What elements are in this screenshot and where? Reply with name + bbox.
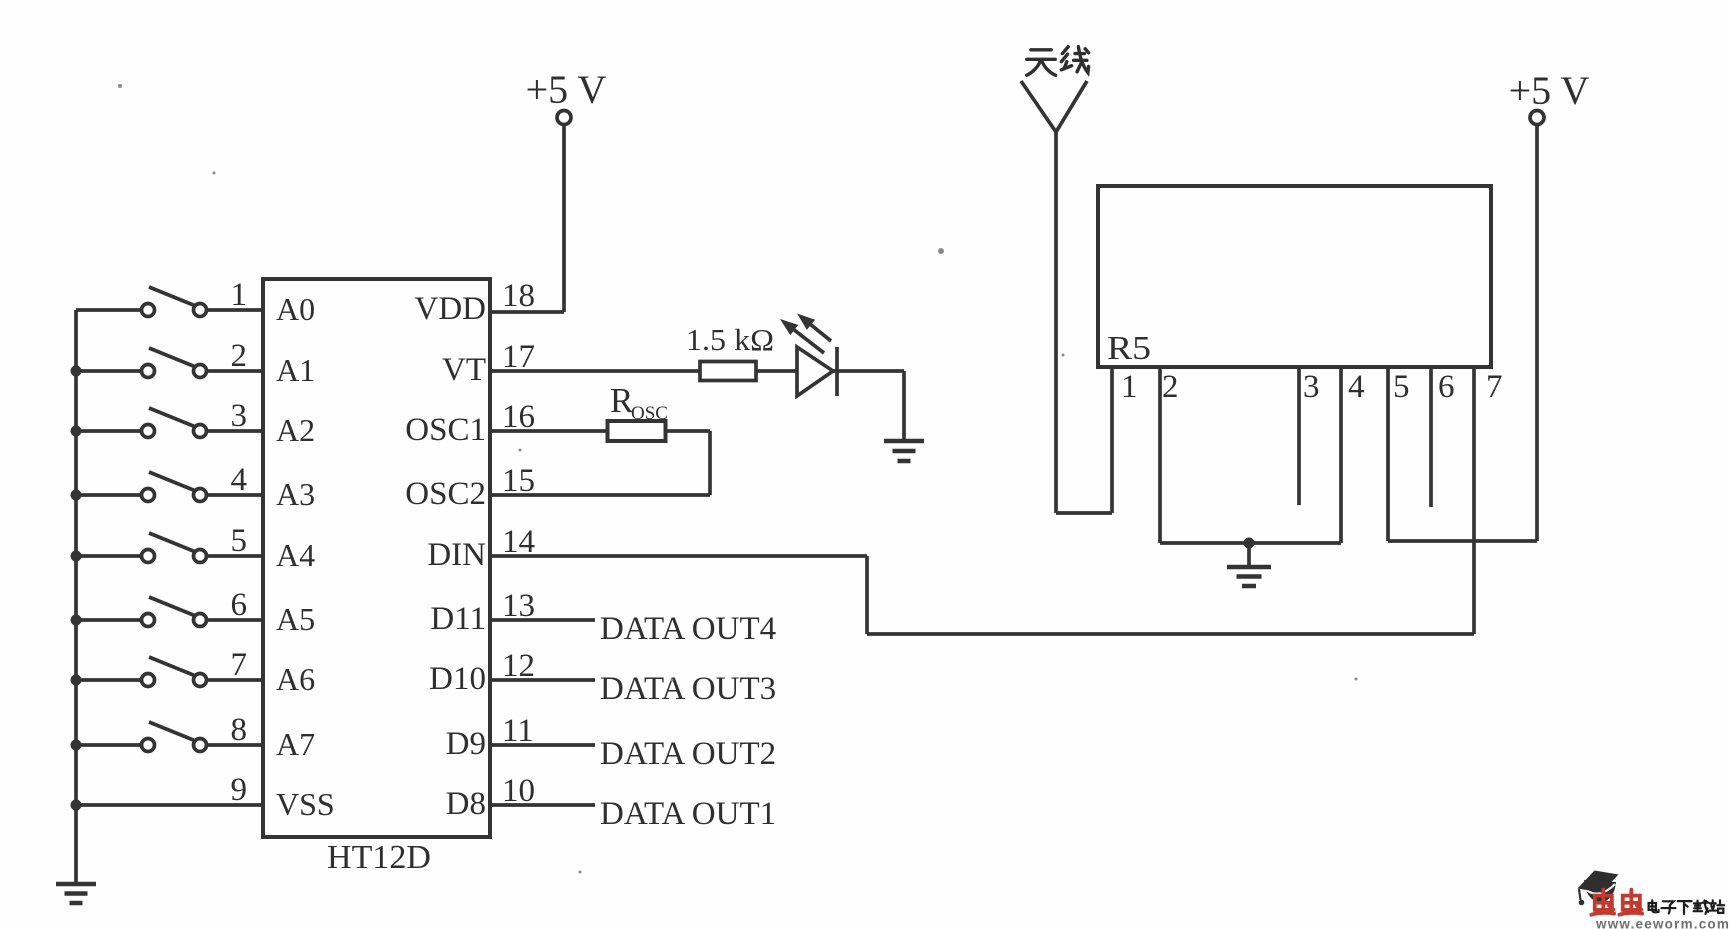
- svg-text:D11: D11: [430, 601, 486, 637]
- svg-text:4: 4: [231, 462, 248, 498]
- svg-text:DATA OUT4: DATA OUT4: [600, 611, 776, 647]
- svg-text:OSC2: OSC2: [405, 476, 486, 512]
- svg-text:VSS: VSS: [276, 786, 335, 822]
- svg-text:4: 4: [1348, 369, 1365, 405]
- svg-text:7: 7: [231, 647, 248, 683]
- svg-text:3: 3: [1303, 369, 1320, 405]
- svg-text:5: 5: [1393, 369, 1410, 405]
- svg-text:1: 1: [231, 277, 248, 313]
- svg-text:R5: R5: [1107, 330, 1151, 367]
- svg-text:A5: A5: [276, 601, 315, 637]
- svg-text:8: 8: [231, 712, 248, 748]
- svg-text:A2: A2: [276, 412, 315, 448]
- svg-text:+5 V: +5 V: [526, 67, 607, 112]
- svg-text:9: 9: [231, 772, 248, 808]
- svg-text:A0: A0: [276, 291, 315, 327]
- svg-text:+5 V: +5 V: [1509, 68, 1590, 113]
- svg-text:A4: A4: [276, 537, 315, 573]
- svg-text:DATA OUT1: DATA OUT1: [600, 796, 776, 832]
- svg-text:A6: A6: [276, 661, 315, 697]
- svg-text:A3: A3: [276, 476, 315, 512]
- svg-text:18: 18: [502, 278, 535, 314]
- svg-text:D9: D9: [446, 726, 486, 762]
- svg-text:OSC: OSC: [631, 403, 668, 424]
- svg-text:2: 2: [1162, 369, 1179, 405]
- svg-text:3: 3: [231, 398, 248, 434]
- svg-text:DATA OUT2: DATA OUT2: [600, 736, 776, 772]
- svg-text:VDD: VDD: [415, 291, 487, 327]
- svg-text:www.eeworm.com: www.eeworm.com: [1595, 917, 1729, 929]
- svg-text:6: 6: [1438, 369, 1455, 405]
- svg-text:2: 2: [231, 338, 248, 374]
- svg-text:7: 7: [1486, 369, 1503, 405]
- svg-text:DIN: DIN: [427, 537, 486, 573]
- svg-text:HT12D: HT12D: [327, 839, 431, 876]
- svg-text:A7: A7: [276, 726, 315, 762]
- svg-text:D8: D8: [446, 786, 486, 822]
- svg-text:DATA OUT3: DATA OUT3: [600, 671, 776, 707]
- svg-text:5: 5: [231, 523, 248, 559]
- svg-text:1.5 kΩ: 1.5 kΩ: [686, 322, 774, 357]
- svg-text:VT: VT: [442, 352, 486, 388]
- svg-text:A1: A1: [276, 352, 315, 388]
- svg-text:6: 6: [231, 587, 248, 623]
- svg-text:D10: D10: [429, 661, 486, 697]
- svg-text:OSC1: OSC1: [405, 412, 486, 448]
- svg-text:1: 1: [1121, 369, 1138, 405]
